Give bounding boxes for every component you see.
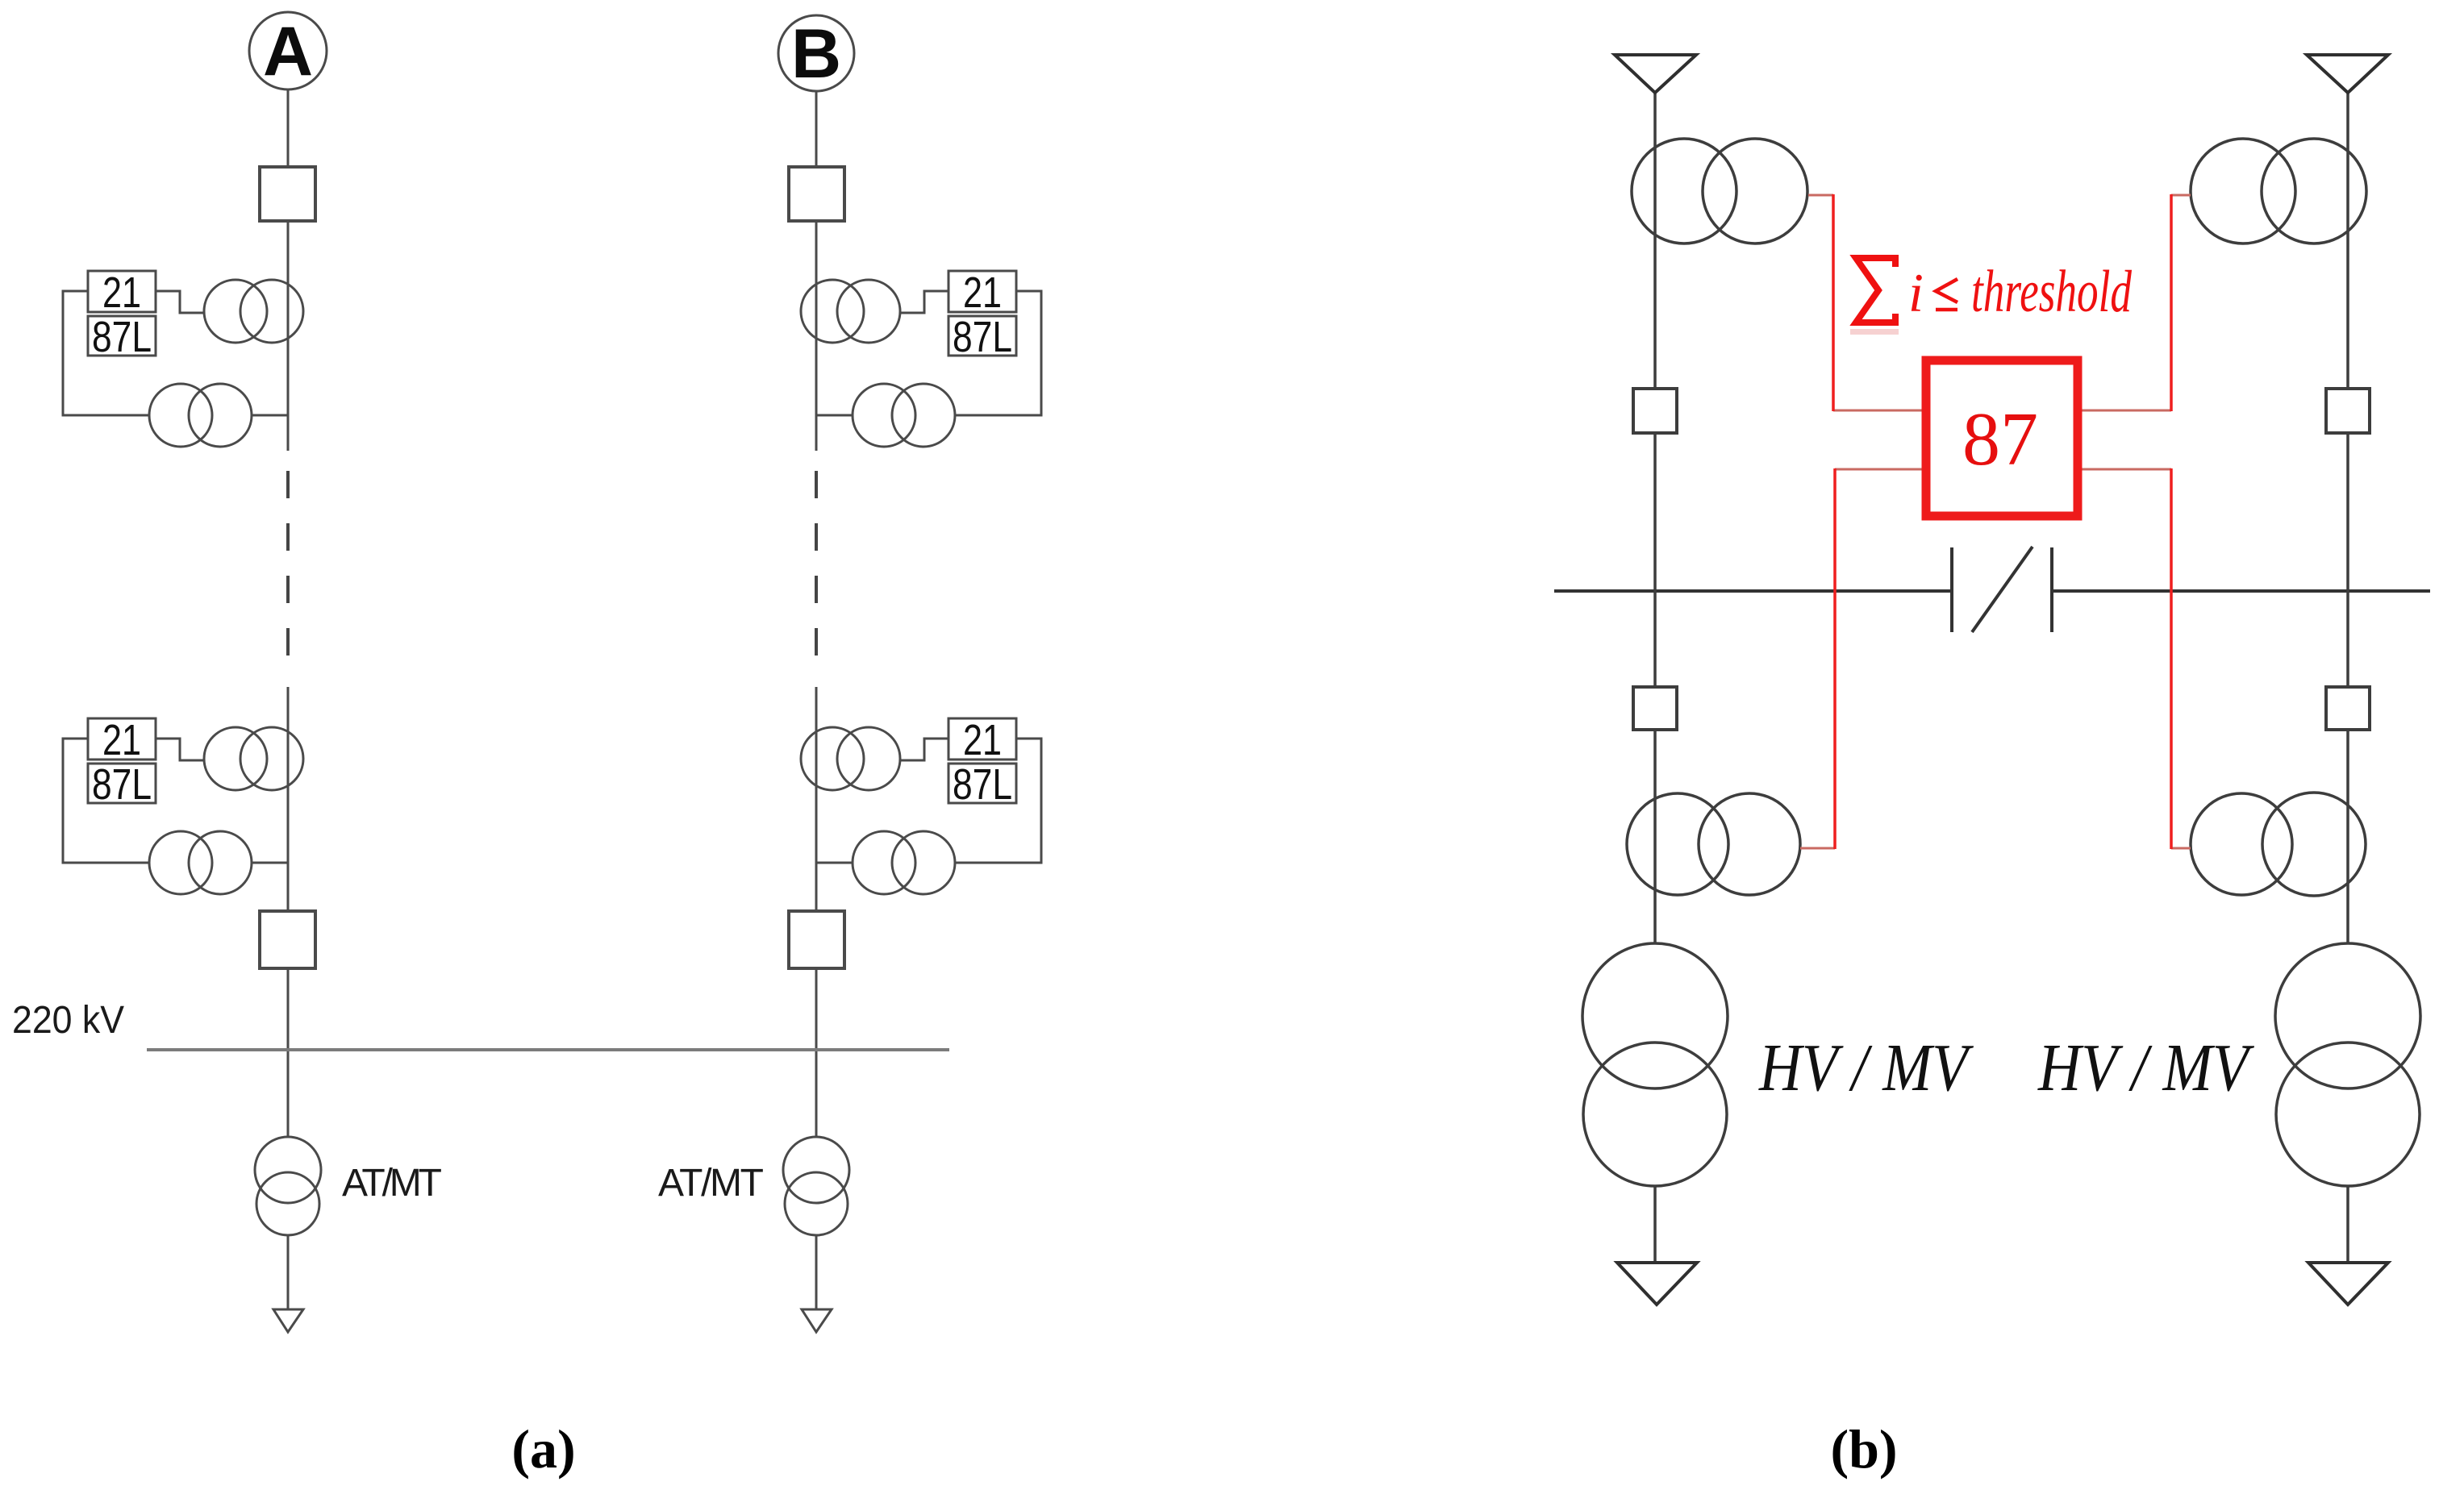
svg-text:87L: 87L	[92, 760, 152, 809]
svg-text:i: i	[1908, 262, 1924, 323]
svg-text:threshold: threshold	[1971, 259, 2133, 325]
svg-text:B: B	[791, 15, 841, 93]
svg-text:220 kV: 220 kV	[12, 999, 124, 1042]
svg-text:AT/MT: AT/MT	[658, 1162, 764, 1205]
svg-text:A: A	[263, 13, 313, 90]
svg-text:21: 21	[963, 268, 1002, 317]
svg-text:HV / MV: HV / MV	[1758, 1030, 1974, 1105]
svg-text:AT/MT: AT/MT	[342, 1162, 442, 1205]
svg-text:21: 21	[102, 268, 141, 317]
svg-text:87: 87	[1962, 397, 2038, 481]
svg-text:(a): (a)	[511, 1418, 575, 1480]
svg-text:HV / MV: HV / MV	[2037, 1030, 2255, 1105]
svg-text:87L: 87L	[953, 313, 1012, 361]
svg-text:21: 21	[963, 716, 1002, 764]
svg-text:87L: 87L	[92, 313, 152, 361]
svg-text:21: 21	[102, 716, 141, 764]
svg-text:87L: 87L	[953, 760, 1012, 809]
svg-text:(b): (b)	[1830, 1418, 1897, 1480]
